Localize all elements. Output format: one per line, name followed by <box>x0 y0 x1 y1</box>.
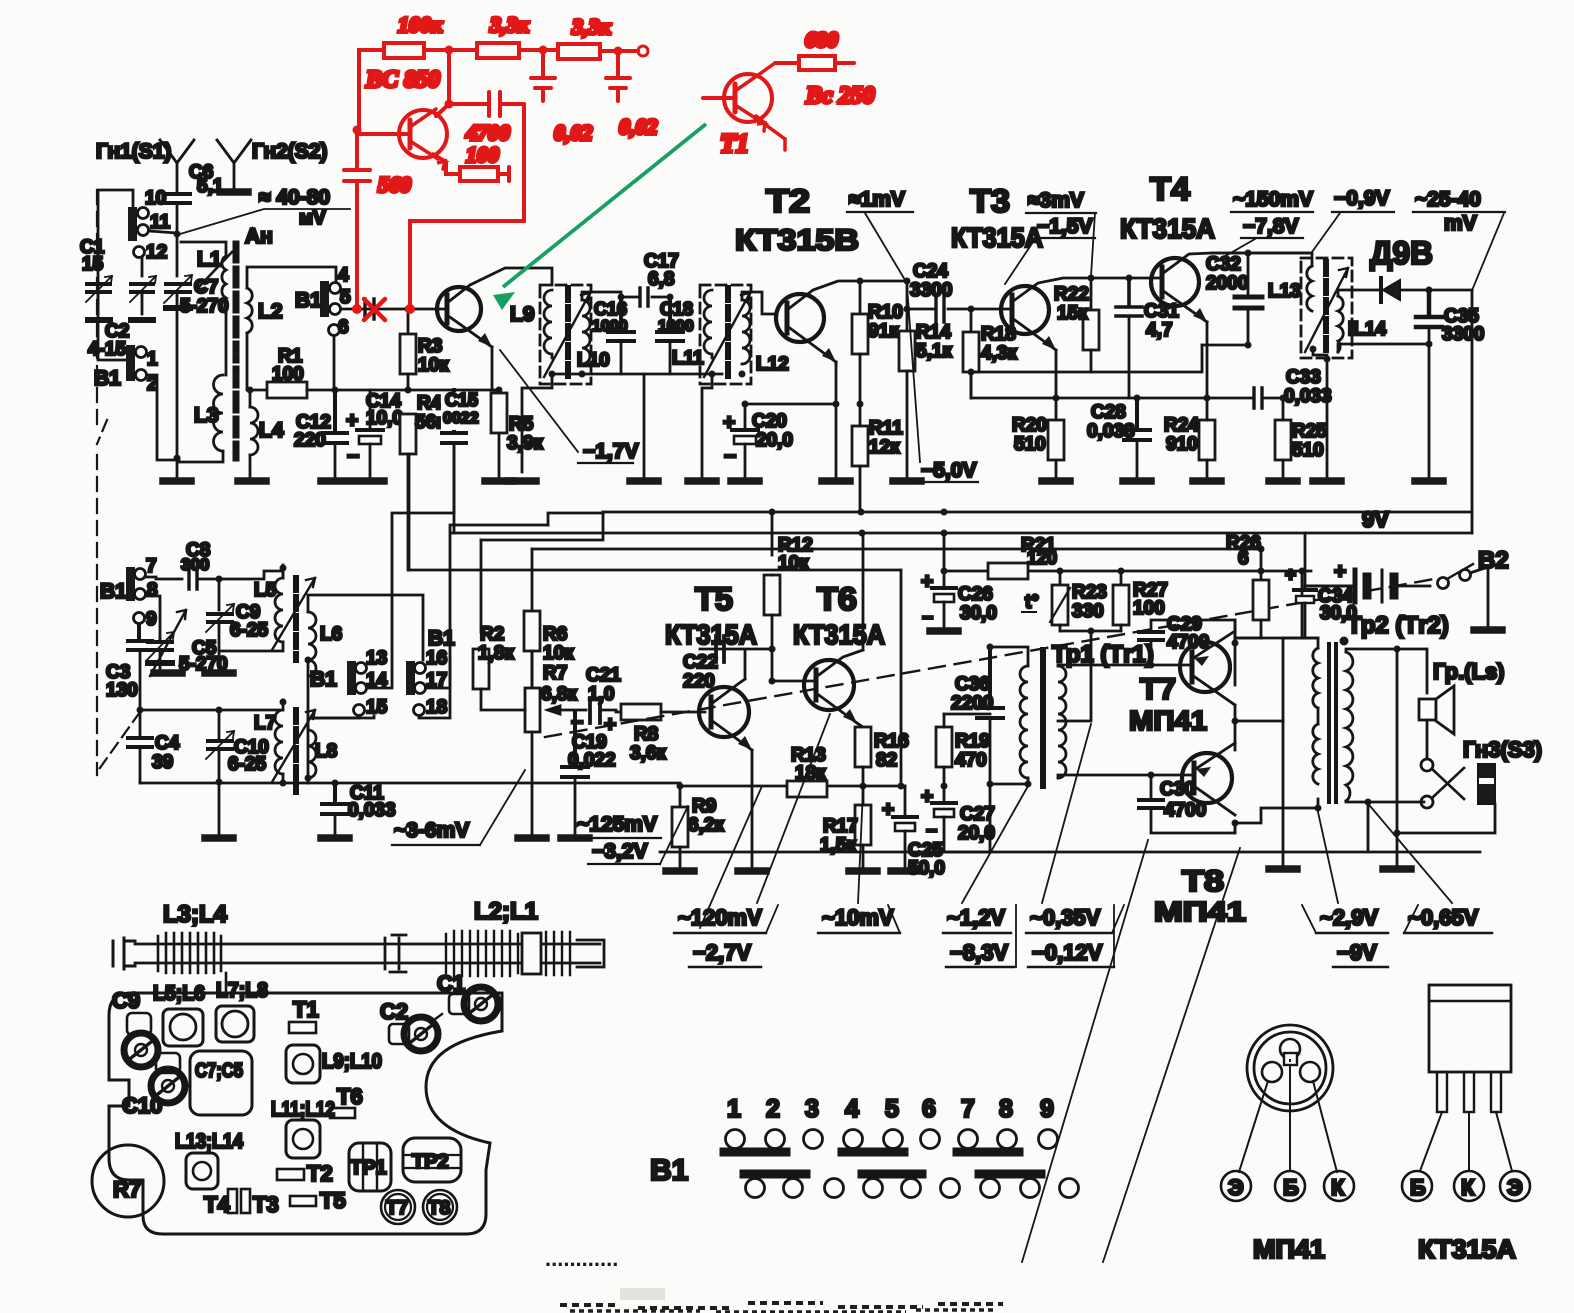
wire contacts1-2 <box>98 283 179 460</box>
wire L9 bottom to ground <box>522 374 552 472</box>
svg-text:910: 910 <box>1166 434 1198 455</box>
svg-text:R11: R11 <box>869 418 903 439</box>
node antenna junction <box>174 231 181 238</box>
switch row2 circles <box>746 1179 1079 1198</box>
red capacitor 0,02 first <box>531 50 593 145</box>
wire L8 bottom long row <box>308 778 680 783</box>
coil L1 <box>196 248 232 314</box>
svg-text:1,0: 1,0 <box>588 684 614 705</box>
wire Tp2 secondary top <box>1346 649 1397 652</box>
red wire between <box>519 48 558 52</box>
svg-text:39: 39 <box>152 752 173 773</box>
svg-text:18: 18 <box>426 697 447 718</box>
wire C20 row <box>745 403 836 406</box>
svg-text:300: 300 <box>181 555 209 574</box>
svg-text:−0,12V: −0,12V <box>1032 940 1103 965</box>
svg-text:R10: R10 <box>868 302 903 323</box>
svg-text:C16: C16 <box>594 299 627 319</box>
svg-text:IL14: IL14 <box>1348 319 1386 340</box>
svg-text:Т4: Т4 <box>204 1192 230 1217</box>
red resistor 3,3к first <box>477 12 530 58</box>
svg-text:L10: L10 <box>577 350 610 371</box>
wire speaker to switch <box>1426 720 1429 759</box>
label ~10mV <box>818 905 900 933</box>
svg-text:R16: R16 <box>874 731 909 752</box>
ground Tp2 col <box>1394 830 1401 837</box>
svg-text:10к: 10к <box>418 355 449 376</box>
wire L5 top <box>219 571 283 579</box>
capacitor C34 30,0 <box>1283 533 1357 638</box>
svg-text:R24: R24 <box>1164 415 1199 436</box>
wire C16 col ground <box>643 374 646 478</box>
label ~120mV -2,7V <box>674 905 778 967</box>
svg-text:Т3: Т3 <box>970 183 1010 219</box>
svg-text:mV: mV <box>1444 212 1477 235</box>
svg-text:ТР2: ТР2 <box>412 1151 449 1173</box>
node C22 R12 <box>769 646 776 653</box>
resistor R13 18к <box>787 745 827 797</box>
red node base <box>353 126 362 135</box>
resistor R8 3,6к <box>616 704 705 764</box>
wire L2 bottom to R1 <box>247 333 265 390</box>
svg-text:Т6: Т6 <box>817 581 857 617</box>
detector transformer L13 L14 dashed box <box>1301 258 1352 358</box>
pad TP2 <box>403 1138 461 1182</box>
coil L7 <box>254 710 283 774</box>
core L11L12 <box>725 288 731 382</box>
potentiometer R7 6,8к <box>518 663 586 838</box>
svg-text:L8: L8 <box>315 741 337 762</box>
svg-text:+: + <box>346 409 358 432</box>
svg-text:680: 680 <box>805 27 838 52</box>
wire L1 top <box>181 242 226 252</box>
wire Tp1 primary bottom <box>1027 778 1030 784</box>
svg-text:C20: C20 <box>752 411 787 432</box>
wire C10 ground <box>218 782 221 835</box>
wire contact15 18 row <box>308 658 450 718</box>
node C32 bottom <box>1245 342 1252 349</box>
svg-text:9V: 9V <box>1362 507 1389 532</box>
svg-text:20,0: 20,0 <box>756 430 793 451</box>
node T7 collector <box>1234 705 1237 721</box>
wire L5 bottom <box>219 642 283 651</box>
svg-text:+: + <box>921 570 933 593</box>
resistor R18 4,3к <box>963 309 1017 398</box>
capacitor C22 220 <box>683 636 774 692</box>
switch Гн3 contacts <box>1421 737 1542 808</box>
label ~0,65V <box>1404 905 1492 933</box>
switch row2 bars <box>744 1170 1041 1179</box>
svg-text:120: 120 <box>1027 548 1057 568</box>
svg-text:10к: 10к <box>543 643 574 664</box>
resistor R27 100 <box>1113 568 1168 632</box>
label ≈1mV <box>847 188 913 280</box>
wire line y570 <box>409 569 901 572</box>
diode Д9В <box>1370 235 1472 302</box>
gang arrow C5 <box>150 610 186 676</box>
node L11 bottoms <box>709 371 716 378</box>
ground under Гн2 <box>220 191 248 194</box>
resistor R10 91к <box>857 278 864 285</box>
wire line y533 9V <box>452 532 1472 535</box>
trimmer arrow L5 <box>272 578 315 650</box>
svg-text:0,02: 0,02 <box>619 114 658 139</box>
svg-text:0,033: 0,033 <box>1284 386 1332 407</box>
wire T2 emitter col <box>835 362 838 404</box>
svg-text:Гн3(S3): Гн3(S3) <box>1463 737 1542 762</box>
svg-text:5: 5 <box>340 287 351 308</box>
svg-text:Т4: Т4 <box>1150 171 1190 207</box>
wire Tp2 primary top <box>1283 638 1318 648</box>
node T8 collector <box>1232 820 1239 827</box>
wire right rail <box>1471 290 1474 533</box>
svg-text:Т7: Т7 <box>1140 673 1176 706</box>
switch row1 circles <box>726 1130 1058 1149</box>
resistor R6 10к <box>524 611 574 710</box>
svg-text:КТ315В: КТ315В <box>735 224 859 257</box>
capacitor C29 4700 <box>1139 614 1235 665</box>
resistor R11 12к <box>852 404 903 512</box>
red node1 <box>445 46 454 55</box>
wire R26 bottom to T7 emitter node <box>1235 637 1261 640</box>
wire C30 bottom link <box>1234 822 1237 825</box>
capacitor C14 10,0 <box>346 390 403 481</box>
wire Tp2 primary bottom <box>1317 799 1320 808</box>
svg-text:+: + <box>921 785 933 808</box>
svg-text:91к: 91к <box>868 321 899 342</box>
red transistor T1 right <box>703 63 785 150</box>
transistor T8 МП41 <box>1182 743 1235 815</box>
svg-text:130: 130 <box>106 680 138 701</box>
svg-text:C36: C36 <box>955 674 990 695</box>
svg-text:B1: B1 <box>310 668 337 691</box>
svg-text:R20: R20 <box>1012 415 1047 436</box>
IF transformer L11 L12 dashed box <box>700 285 751 384</box>
transformer Tp2 secondary <box>1346 652 1353 801</box>
svg-text:Э: Э <box>1228 1175 1244 1200</box>
wire L6 bottom down <box>307 660 310 783</box>
wire R23 R27 bottoms <box>1060 630 1121 633</box>
svg-text:12к: 12к <box>869 437 900 458</box>
svg-text:~2,9V: ~2,9V <box>1320 905 1378 930</box>
pad C7 C5 <box>190 1051 252 1115</box>
svg-text:L11: L11 <box>672 348 704 369</box>
svg-text:Т7: Т7 <box>386 1198 408 1219</box>
pinout МП41 leads <box>1239 1060 1337 1172</box>
svg-text:Б: Б <box>1410 1175 1426 1200</box>
svg-text:L13: L13 <box>1268 281 1301 302</box>
svg-text:~0,65V: ~0,65V <box>1408 905 1479 930</box>
svg-text:1,8к: 1,8к <box>478 643 514 664</box>
transistor T5 <box>699 679 752 868</box>
wire center tap drop <box>1063 631 1091 721</box>
resistor R20 510 <box>1012 395 1070 482</box>
wire C7 col to ground <box>176 456 179 478</box>
coil L12 <box>742 300 750 364</box>
svg-text:≈3mV: ≈3mV <box>1028 189 1084 212</box>
svg-text:C32: C32 <box>1206 254 1241 275</box>
transistor T2 <box>776 281 907 364</box>
svg-text:100к: 100к <box>398 12 443 37</box>
svg-text:6,2к: 6,2к <box>688 815 724 836</box>
capacitor C16 1000 <box>592 297 634 374</box>
svg-text:−0,9V: −0,9V <box>1334 187 1389 210</box>
svg-text:220: 220 <box>294 430 326 451</box>
wire x901 drop <box>900 570 903 786</box>
svg-text:4,7: 4,7 <box>1146 320 1172 341</box>
transformer Tp1 secondary <box>1058 666 1066 778</box>
svg-text:L3;L4: L3;L4 <box>163 901 228 928</box>
wire to C24 <box>906 281 909 309</box>
switch row1 bars <box>724 1148 1019 1157</box>
svg-text:B1: B1 <box>100 580 127 603</box>
wire Tp2 sec bottom to bus <box>1367 802 1370 852</box>
svg-text:R25: R25 <box>1292 421 1327 442</box>
svg-text:B1: B1 <box>650 1154 688 1187</box>
svg-text:R6: R6 <box>543 624 567 645</box>
wire riser x603 <box>481 512 603 540</box>
node L3-C7 junction <box>174 455 181 462</box>
label ≈3mV -1,5V <box>1005 189 1096 284</box>
svg-text:C33: C33 <box>1286 367 1321 388</box>
wire C15 col to y513 <box>453 447 456 533</box>
switch numbers 1-9 <box>727 1095 1054 1123</box>
svg-text:L4: L4 <box>259 419 284 442</box>
node T6 emitter row <box>860 783 867 790</box>
svg-text:Т5: Т5 <box>695 581 733 617</box>
variable capacitor C1 15 <box>80 237 112 320</box>
svg-text:7: 7 <box>146 556 157 577</box>
wire L12 top to T2 base <box>742 292 775 314</box>
svg-text:Т3: Т3 <box>253 1192 279 1217</box>
svg-text:100: 100 <box>466 142 499 167</box>
svg-text:100: 100 <box>1133 598 1165 619</box>
resistor R1 100 <box>267 346 335 398</box>
pad L11 L12 <box>271 1098 335 1158</box>
svg-text:L5;L6: L5;L6 <box>153 982 205 1005</box>
wire audio supply row y571 <box>944 570 1311 573</box>
svg-text:5,1к: 5,1к <box>916 341 952 362</box>
svg-text:−9V: −9V <box>1337 940 1377 965</box>
wire Tp1 primary top <box>990 647 1028 666</box>
svg-text:5: 5 <box>885 1095 899 1123</box>
red open terminal <box>638 46 648 56</box>
svg-text:~0,35V: ~0,35V <box>1030 905 1101 930</box>
svg-text:Гр.(Ls): Гр.(Ls) <box>1433 659 1505 684</box>
trimmer C10 6-25 <box>206 710 269 782</box>
capacitor C11 0,033 <box>321 783 396 838</box>
green arrow <box>493 124 706 310</box>
svg-text:≈1mV: ≈1mV <box>849 188 905 211</box>
node C33 <box>1280 395 1287 402</box>
svg-text:~10mV: ~10mV <box>822 905 894 930</box>
svg-text:Тр2 (Тr2): Тр2 (Тr2) <box>1347 612 1449 639</box>
node C8 right <box>216 576 223 583</box>
svg-text:5,1: 5,1 <box>197 176 224 197</box>
wire contact8 down to C5 <box>147 596 160 638</box>
wire bias row <box>335 389 499 392</box>
svg-text:8: 8 <box>147 580 158 601</box>
resistor R22 15к <box>1054 278 1099 372</box>
wire Tp1 secondary center tap <box>1058 720 1063 723</box>
capacitor C35 3300 <box>1416 290 1484 345</box>
wire emitter rail ground <box>1282 721 1285 866</box>
core L5L6 <box>293 578 299 660</box>
wire Tp1 bottom rail <box>989 784 992 852</box>
svg-text:3,3к: 3,3к <box>571 14 612 39</box>
svg-text:6: 6 <box>922 1095 936 1123</box>
label ~2,9V -9V <box>1302 905 1388 967</box>
svg-text:220: 220 <box>683 671 715 692</box>
wire C9 C5 bottoms <box>160 651 219 669</box>
wire Tp2 secondary bottom row <box>1346 801 1368 802</box>
red wire to 3,3k <box>424 48 477 52</box>
coil L13 <box>1307 266 1312 311</box>
transistor T1 <box>437 268 552 390</box>
svg-text:Гн2(S2): Гн2(S2) <box>252 140 327 163</box>
svg-text:R14: R14 <box>916 322 951 343</box>
svg-text:15: 15 <box>82 254 104 275</box>
svg-text:10,0: 10,0 <box>366 408 403 429</box>
wire R12 to T6 base <box>771 649 774 681</box>
wire L7 bottom row <box>282 774 285 783</box>
transformer Tp1 primary <box>1020 666 1028 778</box>
node R1 right <box>332 387 339 394</box>
wire riser x548 step <box>548 513 603 525</box>
svg-text:t°: t° <box>1025 592 1039 613</box>
red wire to terminal <box>600 49 638 53</box>
svg-text:0,033: 0,033 <box>1087 421 1135 442</box>
capacitor C30 4700 <box>1139 775 1235 833</box>
resistor R14 5,1к <box>893 309 952 481</box>
wire L10 top to C16 <box>582 292 621 300</box>
resistor R3 10к <box>400 309 449 376</box>
svg-text:470: 470 <box>955 750 987 771</box>
switch B1 contacts 16 17 18 <box>406 627 455 718</box>
svg-text:R23: R23 <box>1072 582 1107 603</box>
node C28 <box>1134 395 1141 402</box>
trimmer pad C10 <box>122 1053 185 1118</box>
red node2 <box>539 46 548 55</box>
dashed border left <box>96 190 98 430</box>
svg-text:C10: C10 <box>122 1093 162 1118</box>
transformer Tp2 core <box>1329 644 1336 802</box>
svg-text:L2;L1: L2;L1 <box>474 898 538 925</box>
svg-text:2: 2 <box>766 1095 780 1123</box>
svg-text:T6: T6 <box>337 1084 363 1109</box>
wire Tp1 secondary top to T7 base <box>1058 665 1151 666</box>
svg-text:15к: 15к <box>1057 303 1088 324</box>
trimmer arrow L7 <box>272 710 315 782</box>
svg-text:Т8: Т8 <box>1182 865 1224 898</box>
svg-text:Гн1(S1): Гн1(S1) <box>96 140 171 163</box>
coil L6 <box>308 612 316 676</box>
svg-text:2200: 2200 <box>951 693 993 714</box>
resistor R16 82 <box>855 727 909 786</box>
svg-text:9: 9 <box>146 609 157 630</box>
label ~25-40 mV <box>1413 188 1505 288</box>
svg-text:−: − <box>922 608 933 629</box>
wire R22-C32 link <box>1091 345 1202 372</box>
svg-text:L9: L9 <box>510 303 535 326</box>
capacitor C27 20,0 <box>921 785 995 852</box>
node T3 collector R22 <box>1088 275 1095 282</box>
node core taps <box>233 352 240 359</box>
svg-text:1000: 1000 <box>658 318 694 335</box>
svg-text:~120mV: ~120mV <box>678 905 762 930</box>
svg-text:C21: C21 <box>586 665 621 686</box>
red node collector <box>445 100 454 109</box>
speaker Гр <box>1419 659 1505 734</box>
node C18 top <box>667 294 674 301</box>
switch B1 contacts 10 11 12 <box>128 188 171 263</box>
svg-text:R7: R7 <box>113 1177 141 1202</box>
wire feedback row y372 <box>971 371 1091 374</box>
svg-text:−: − <box>347 445 359 468</box>
svg-text:МП41: МП41 <box>1154 896 1246 927</box>
svg-text:−2,7V: −2,7V <box>693 940 751 965</box>
svg-text:~25-40: ~25-40 <box>1415 188 1481 211</box>
wire C35 to ground <box>1428 344 1431 477</box>
trimmer C9 6-25 <box>206 602 268 651</box>
svg-text:≈ 40-80: ≈ 40-80 <box>259 186 330 209</box>
wire contact14 riser <box>367 513 454 688</box>
svg-text:L9;L10: L9;L10 <box>322 1050 382 1073</box>
wire L14 bottom row <box>1338 344 1341 352</box>
trimmer pad C9 <box>112 988 158 1067</box>
svg-text:−7,8V: −7,8V <box>1243 215 1298 238</box>
wire T7 emitter rail <box>1234 620 1237 685</box>
antenna Гн2(S2) <box>217 140 327 190</box>
svg-text:L7: L7 <box>254 713 276 734</box>
resistor R19 470 <box>936 714 990 786</box>
svg-text:C18: C18 <box>660 299 693 319</box>
svg-text:C22: C22 <box>683 652 718 673</box>
trimmer arrow L11 <box>704 293 750 377</box>
wire L8 top lead <box>308 716 374 730</box>
svg-text:R8: R8 <box>634 724 658 745</box>
svg-text:30,0: 30,0 <box>960 603 997 624</box>
node T7 emitter top <box>1232 640 1239 647</box>
ferrite rod <box>113 931 604 976</box>
capacitor C21 1,0 <box>571 665 621 736</box>
svg-text:~125mV: ~125mV <box>577 813 657 836</box>
svg-text:1: 1 <box>147 349 158 370</box>
resistor R24 910 <box>1164 398 1221 481</box>
svg-text:3,6к: 3,6к <box>630 743 666 764</box>
transformer Tp1 core <box>1040 650 1046 786</box>
red node on schematic wire right <box>405 304 415 314</box>
trimmer arrow L13 <box>1305 268 1348 352</box>
pad T5 <box>290 1188 346 1213</box>
capacitor C25 50,0 <box>882 786 945 879</box>
svg-text:C24: C24 <box>913 261 948 282</box>
wire R19 top row <box>944 713 990 716</box>
svg-text:МП41: МП41 <box>1253 1234 1325 1264</box>
switch B1 contacts 7 8 9 <box>100 556 158 630</box>
transistor T7 МП41 <box>1180 631 1235 705</box>
svg-text:B1: B1 <box>295 289 322 312</box>
wire L13 tap ground <box>1313 349 1327 477</box>
svg-text:R22: R22 <box>1054 284 1089 305</box>
pinout КТ315А pin labels <box>1402 1171 1530 1264</box>
wire contact11 to junction <box>149 231 177 233</box>
svg-text:~3-6mV: ~3-6mV <box>394 819 469 842</box>
label ≈40-80 мV with pointer <box>180 186 350 234</box>
wire line y512 <box>603 511 1472 514</box>
coil L11 <box>704 290 712 358</box>
wire riser x532 <box>531 549 534 690</box>
